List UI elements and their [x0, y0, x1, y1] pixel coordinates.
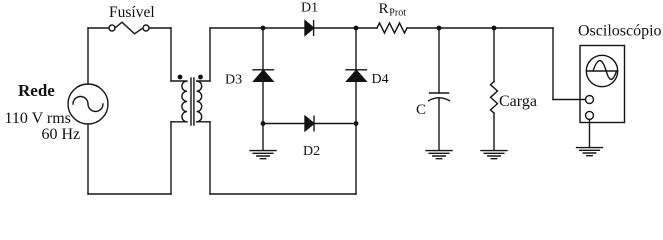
wire secondary left vertical upper: [209, 28, 211, 81]
oscilloscope screen: [586, 55, 617, 86]
node top rail / Carga: [492, 26, 497, 31]
diode D4 branch wire upper: [355, 28, 357, 70]
load branch wire lower: [493, 113, 495, 149]
svg-text:60 Hz: 60 Hz: [42, 126, 81, 143]
node top rail / D4: [354, 26, 359, 31]
diode D2: [305, 116, 314, 131]
transformer T1 core: [191, 78, 194, 125]
diode D4: [346, 69, 367, 71]
svg-text:Rede: Rede: [18, 81, 55, 100]
wire into oscilloscope input: [553, 99, 586, 101]
svg-text:C: C: [416, 102, 426, 118]
wire ground stem at D3/D2 node: [262, 124, 264, 150]
transformer polarity dot primary: [178, 75, 183, 80]
wire secondary bottom rail: [210, 193, 356, 195]
wire primary bottom-left vertical: [87, 124, 89, 194]
wire top rail from transformer to D1: [210, 27, 305, 29]
svg-text:D3: D3: [225, 72, 242, 87]
fuse F1 element: [115, 22, 143, 34]
source V1 sine symbol: [73, 97, 103, 112]
svg-text:Osciloscópio: Osciloscópio: [578, 22, 662, 39]
svg-text:Prot: Prot: [389, 7, 406, 18]
resistor Carga: [491, 82, 498, 114]
diode D3 branch wire upper: [262, 28, 264, 70]
wire D4 node to bottom rail: [355, 124, 357, 195]
fuse F1 left terminal: [109, 25, 115, 31]
transformer polarity dot secondary: [198, 75, 203, 80]
node top rail / C: [437, 26, 442, 31]
transformer T1 primary winding: [171, 81, 187, 122]
oscilloscope input terminal: [586, 96, 594, 104]
diode D3: [253, 69, 274, 71]
oscilloscope U1 body: [580, 46, 625, 123]
source V1 (Rede) circle: [68, 84, 108, 124]
diode D3 branch wire lower: [262, 81, 264, 123]
node D2 rail left: [261, 121, 266, 126]
wire top rail D1 to resistor: [314, 27, 377, 29]
svg-text:D1: D1: [301, 0, 318, 15]
node D2 rail right: [354, 121, 359, 126]
oscilloscope ground terminal: [586, 111, 594, 119]
wire primary right vertical lower: [170, 122, 172, 194]
wire primary top-left vertical: [87, 28, 89, 84]
capacitor C branch wire lower: [438, 98, 440, 150]
ground at load: [481, 151, 507, 159]
diode D4 branch wire lower: [355, 81, 357, 123]
wire primary right vertical upper: [170, 28, 172, 81]
diode D1: [305, 21, 314, 36]
oscilloscope screen waveform: [593, 61, 617, 80]
wire primary top rail left of fuse: [88, 27, 109, 29]
ground at bridge: [250, 151, 276, 159]
transformer T1 secondary winding: [197, 81, 210, 122]
capacitor C plates: [430, 92, 449, 94]
wire right corner vertical: [552, 28, 554, 100]
oscilloscope screen baseline: [587, 70, 618, 72]
wire primary top rail right of fuse: [149, 27, 171, 29]
wire primary bottom rail: [88, 193, 171, 195]
wire D2 rail left: [263, 123, 304, 125]
wire top rail resistor to corner: [407, 27, 553, 29]
svg-text:Carga: Carga: [499, 93, 537, 110]
svg-text:R: R: [379, 1, 389, 17]
capacitor C branch wire upper: [438, 28, 440, 93]
svg-text:Fusível: Fusível: [109, 4, 155, 21]
resistor R_Prot: [377, 23, 407, 33]
wire D2 rail right: [314, 123, 356, 125]
svg-text:110 V rms: 110 V rms: [5, 110, 71, 127]
fuse F1 right terminal: [143, 25, 149, 31]
load (Carga) branch wire upper: [493, 28, 495, 82]
wire secondary left vertical lower: [209, 122, 211, 194]
ground at C: [426, 151, 452, 159]
wire oscilloscope ground stem: [589, 119, 591, 146]
svg-text:D4: D4: [372, 72, 389, 87]
svg-text:D2: D2: [303, 144, 320, 159]
node top rail / D3: [261, 26, 266, 31]
ground at oscilloscope: [577, 148, 603, 156]
